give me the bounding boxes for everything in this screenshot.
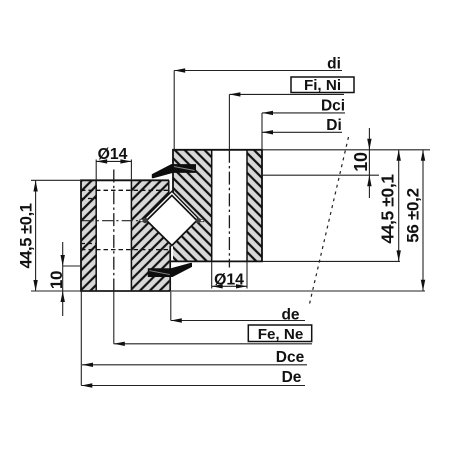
seal top (black)	[152, 164, 196, 178]
dimension di	[174, 70, 342, 72]
dimension 44,5 right	[398, 150, 400, 262]
svg-text:De: De	[282, 369, 302, 386]
svg-text:10: 10	[47, 271, 66, 289]
dimension Dci	[262, 112, 345, 114]
dimension 44,5 left	[35, 181, 37, 292]
centerline inner ring hole	[228, 150, 230, 268]
bolt hole bore, outer ring	[96, 179, 131, 293]
dimension de	[171, 320, 305, 322]
dimension Di	[262, 131, 342, 133]
svg-text:de: de	[281, 307, 299, 324]
svg-text:di: di	[327, 55, 341, 72]
svg-text:10: 10	[351, 152, 371, 172]
hole edge lines outer ring	[95, 180, 97, 291]
dimension 10 left	[62, 242, 64, 316]
seal bottom (black)	[148, 263, 192, 277]
roller pivot dot left	[143, 218, 148, 223]
bolt hole bore, inner ring	[212, 149, 247, 264]
gear tooth hidden lines on outer ring	[81, 189, 168, 191]
dimension Fi, Ni	[229, 93, 344, 95]
outer ring outline	[81, 180, 170, 291]
hole edge lines inner ring	[211, 150, 213, 262]
svg-text:44,5 ±0,1: 44,5 ±0,1	[18, 203, 36, 268]
outer ring (left, sectioned, hatched)	[81, 180, 169, 291]
roller pivot dot right	[196, 218, 201, 223]
svg-text:Fi, Ni: Fi, Ni	[304, 77, 341, 94]
dimension Dce	[82, 364, 307, 366]
svg-text:Di: Di	[326, 117, 342, 134]
relief slit right corner	[197, 219, 204, 221]
seam line below roller	[169, 246, 171, 292]
dimension 10 right	[368, 128, 370, 198]
relief slit left corner	[140, 219, 147, 221]
inner ring outline	[171, 150, 262, 262]
svg-text:Dce: Dce	[276, 349, 305, 366]
raceway clearance wedge	[143, 191, 201, 220]
extension lines right side	[262, 149, 430, 151]
svg-text:56 ±0,2: 56 ±0,2	[404, 188, 423, 243]
dimension De	[81, 385, 305, 387]
centerline outer ring hole	[113, 170, 115, 292]
svg-text:Dci: Dci	[321, 98, 345, 115]
roller (45deg square)	[147, 195, 197, 245]
svg-text:Fe, Ne: Fe, Ne	[258, 326, 304, 343]
inner ring (right, sectioned, hatched)	[173, 150, 262, 262]
phantom diagonal line	[309, 137, 349, 306]
svg-text:44,5 ±0,1: 44,5 ±0,1	[378, 174, 398, 244]
dimension 56	[422, 150, 424, 291]
dimension Fe, Ne	[114, 343, 312, 345]
